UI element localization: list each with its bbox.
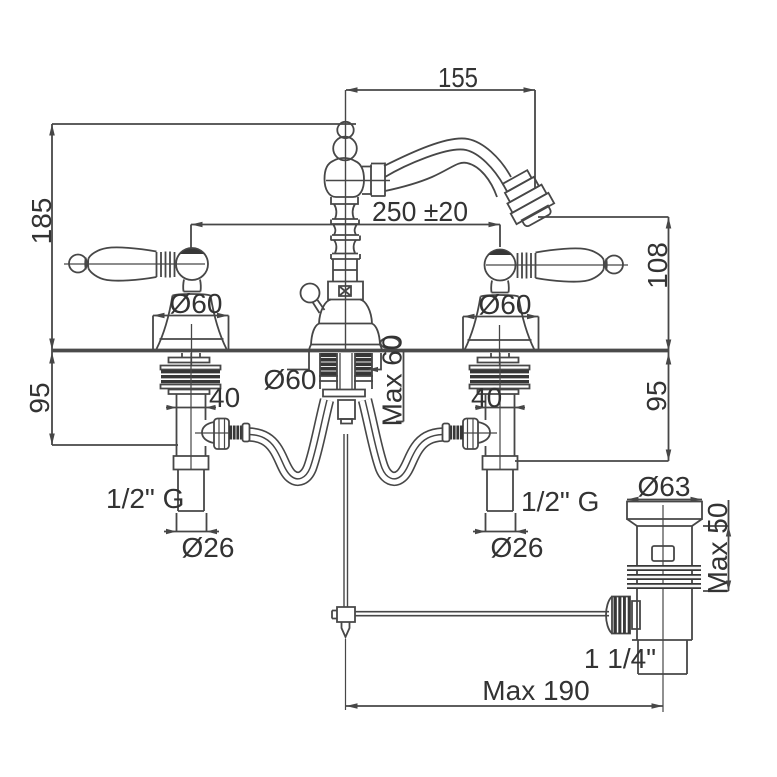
drain O63 arrows bbox=[627, 497, 702, 503]
right valve O26 extensions bbox=[486, 513, 516, 532]
max60 bracket bbox=[368, 352, 404, 422]
max50 bottom tick bbox=[703, 590, 729, 592]
column neck bbox=[334, 240, 356, 253]
left valve fitting flange bbox=[243, 424, 250, 442]
max190 line bbox=[346, 705, 663, 707]
right valve O26 dim line bbox=[473, 531, 528, 533]
drain rib band 3 bbox=[627, 583, 701, 589]
right hose middle line bbox=[365, 400, 443, 479]
dim 95 right vertical bbox=[668, 352, 670, 461]
column taper band bbox=[333, 224, 357, 235]
left handle bonnet ball bbox=[176, 248, 208, 280]
right valve plate 2 bbox=[478, 390, 519, 395]
right valve 40 dim bbox=[475, 407, 525, 409]
column vase section bbox=[334, 204, 355, 219]
right valve ribbed locknut bbox=[470, 366, 530, 389]
right hose white core bbox=[365, 400, 443, 479]
svg-text:250 ±20: 250 ±20 bbox=[372, 196, 468, 227]
right valve fitting hex bbox=[463, 419, 478, 450]
right hose dark band bbox=[365, 400, 443, 479]
left valve plate 1 bbox=[169, 358, 210, 363]
pop-up block bbox=[328, 282, 363, 300]
svg-text:Ø60: Ø60 bbox=[264, 364, 317, 395]
right valve fitting nipple (dark) bbox=[450, 426, 464, 440]
spout tube middle line bbox=[385, 149, 504, 186]
DIMS bbox=[49, 87, 671, 461]
side oval at bell base bbox=[381, 338, 400, 349]
dim 60 right arrows bbox=[463, 314, 539, 320]
faucet centerline bbox=[345, 90, 347, 350]
center bell base lines bbox=[311, 324, 380, 345]
pop-up rod upper bbox=[344, 434, 348, 607]
max60 vertical line bbox=[403, 352, 405, 422]
drain O63 dim line bbox=[627, 499, 702, 501]
max50 bracket bbox=[703, 500, 731, 591]
center left stud lines bbox=[319, 353, 338, 389]
drain flange shoulder bbox=[627, 519, 702, 526]
column straight tube bbox=[333, 259, 357, 281]
center left stud thread (dark) bbox=[320, 353, 337, 376]
right valve 40 arrows bbox=[476, 405, 525, 410]
left valve O26 dim line bbox=[164, 531, 219, 533]
right handle stem below bbox=[491, 281, 509, 293]
left handle bonnet cap (dark) bbox=[180, 249, 204, 254]
max60 leader bbox=[370, 353, 381, 370]
right valve lower block bbox=[483, 456, 518, 470]
dim 60 left arrows bbox=[153, 313, 229, 319]
max50 top tick bbox=[703, 525, 729, 527]
spout collar ring 2 bbox=[371, 163, 385, 197]
linkage clamp side stub bbox=[332, 611, 337, 619]
right valve lower tube bbox=[487, 470, 513, 512]
left valve 40 arrows bbox=[167, 405, 216, 410]
svg-text:1/2" G: 1/2" G bbox=[106, 483, 184, 514]
aerator bbox=[496, 167, 558, 231]
right valve axis bbox=[499, 353, 501, 470]
right valve fitting hex facets bbox=[468, 419, 474, 449]
left valve ribbed locknut bbox=[161, 366, 221, 389]
left handle neck bbox=[85, 258, 88, 270]
left valve fitting hex facets bbox=[219, 419, 225, 449]
dim 95 left vertical bbox=[51, 351, 53, 445]
right valve fitting nipple threads bbox=[453, 426, 460, 440]
left hose dark band bbox=[250, 400, 328, 479]
left valve fitting nipple (dark) bbox=[229, 426, 243, 440]
drain knob left cap bbox=[606, 597, 612, 634]
spout body bbox=[325, 158, 365, 197]
column ring below body bbox=[331, 197, 358, 204]
right valve fitting flange bbox=[443, 424, 450, 442]
right valve shank stub bbox=[491, 353, 509, 357]
left handle centerline bbox=[64, 263, 205, 265]
center tube lines bbox=[340, 353, 352, 389]
O60 center leader bbox=[287, 352, 309, 370]
left handle stem below bbox=[183, 280, 201, 292]
dim 108 top reference line bbox=[538, 216, 669, 218]
left valve lower tube bbox=[178, 470, 204, 512]
dim 185 top extension bbox=[52, 123, 356, 125]
svg-text:Ø26: Ø26 bbox=[182, 532, 235, 563]
spout tube bottom line bbox=[385, 163, 497, 197]
spout collar ring 1 bbox=[362, 165, 372, 196]
center right stud lines bbox=[354, 353, 373, 389]
linkage clamp square bbox=[337, 607, 355, 622]
max50 arrows bbox=[726, 526, 731, 591]
dim 185/95 arrows bbox=[49, 124, 55, 445]
right handle collar rings bbox=[518, 253, 536, 279]
dim 60 left line bbox=[153, 315, 229, 317]
right handle neck bbox=[604, 259, 607, 271]
max190 arrows bbox=[346, 703, 663, 709]
right valve fitting centerline bbox=[462, 432, 497, 434]
rod lower tip bbox=[342, 622, 350, 637]
horizontal rod to drain bbox=[355, 612, 609, 616]
left valve O26 extensions bbox=[177, 513, 207, 532]
right valve O26 arrows bbox=[475, 529, 526, 534]
left escutcheon bell bbox=[157, 292, 227, 350]
max190 dimension bbox=[346, 703, 663, 709]
right escutcheon axis bbox=[499, 325, 501, 366]
right valve locknut ribs (dark) bbox=[470, 370, 529, 383]
pull-rod knob bbox=[301, 284, 320, 303]
left valve locknut ribs (dark) bbox=[161, 370, 220, 383]
left valve side fitting boss bbox=[202, 422, 214, 443]
left valve lower block bbox=[174, 456, 209, 470]
right handle grip bbox=[536, 248, 604, 281]
dim 108/95 arrows bbox=[666, 217, 672, 461]
right handle bonnet cap (dark) bbox=[489, 250, 512, 255]
right handle centerline bbox=[486, 264, 628, 266]
svg-text:40: 40 bbox=[471, 382, 502, 413]
drain knob dark ribs bbox=[614, 597, 631, 634]
max60 bottom tick bbox=[396, 421, 404, 423]
left valve body tube bbox=[177, 394, 206, 456]
svg-text:108: 108 bbox=[642, 242, 673, 289]
svg-text:Max 50: Max 50 bbox=[702, 503, 733, 595]
svg-text:95: 95 bbox=[641, 380, 672, 411]
deck line bbox=[52, 349, 669, 353]
finial ball lower bbox=[333, 137, 357, 161]
drain knob collar bbox=[632, 601, 640, 629]
pop-up linkage bbox=[332, 607, 609, 710]
svg-text:1 1/4": 1 1/4" bbox=[584, 643, 656, 674]
dim 108 vertical bbox=[668, 217, 670, 352]
column ring pair 3 bbox=[331, 254, 360, 260]
right valve body tube bbox=[486, 394, 515, 456]
max50 vertical bbox=[728, 500, 730, 591]
center block bbox=[338, 400, 355, 419]
left valve O26 arrows bbox=[166, 529, 217, 534]
svg-text:1/2" G: 1/2" G bbox=[521, 486, 599, 517]
left valve below deck bbox=[161, 353, 250, 534]
dim 185 vertical line bbox=[51, 124, 53, 351]
right handle group bbox=[465, 248, 629, 366]
right valve below deck bbox=[443, 353, 530, 534]
dim 155 line bbox=[346, 89, 535, 91]
drain tailpiece bbox=[638, 640, 687, 674]
column ring pair 2 bbox=[331, 235, 360, 241]
left valve fitting nipple threads bbox=[233, 426, 240, 440]
left handle grip bbox=[89, 247, 157, 280]
left handle collar rings bbox=[157, 252, 175, 278]
spout tube top line bbox=[384, 138, 511, 177]
center below-deck assembly bbox=[250, 353, 443, 607]
column ring pair bbox=[331, 219, 359, 225]
dim 250 arrows bbox=[191, 222, 500, 228]
svg-text:95: 95 bbox=[24, 382, 55, 413]
left hose white core bbox=[250, 400, 328, 479]
svg-text:40: 40 bbox=[209, 382, 240, 413]
left valve fitting hex bbox=[214, 419, 229, 450]
svg-text:155: 155 bbox=[438, 62, 478, 93]
pull-rod stem bbox=[313, 300, 325, 313]
pop-up block inner square with X bbox=[339, 286, 351, 296]
drain tube bbox=[637, 526, 692, 640]
left escutcheon axis bbox=[191, 324, 193, 365]
drain assembly bbox=[606, 497, 702, 712]
right escutcheon bell bbox=[465, 293, 535, 351]
drain knob castellated bbox=[612, 597, 630, 634]
left valve axis bbox=[190, 353, 192, 470]
max190 left extension bbox=[345, 639, 347, 710]
center block stub bbox=[341, 419, 352, 424]
right handle finial ball bbox=[605, 256, 623, 274]
dim 60 right line bbox=[463, 316, 539, 318]
center right stud thread (dark) bbox=[355, 353, 372, 376]
svg-text:Ø63: Ø63 bbox=[638, 471, 691, 502]
left handle group bbox=[64, 247, 227, 365]
mounting plate bbox=[323, 390, 365, 397]
dim 155 arrows bbox=[346, 87, 535, 93]
max60 leader arrow bbox=[368, 367, 378, 372]
dim 60 right extensions bbox=[463, 317, 539, 351]
left handle finial ball bbox=[69, 255, 87, 273]
right valve side fitting boss bbox=[478, 422, 490, 443]
svg-text:Max 190: Max 190 bbox=[482, 675, 589, 706]
dim 250 line bbox=[191, 224, 500, 226]
drain rib band 1 bbox=[627, 565, 701, 571]
dim 155 right extension bbox=[534, 90, 536, 188]
spout body centerline bbox=[326, 180, 390, 182]
dim 60 left extensions bbox=[153, 316, 229, 351]
drain body bottom line bbox=[632, 639, 692, 641]
right handle bonnet ball bbox=[485, 250, 516, 281]
right valve plate 1 bbox=[478, 358, 519, 363]
dim 95 left bottom tick bbox=[52, 444, 178, 446]
dim 250 right drop bbox=[499, 225, 501, 248]
svg-text:Ø60: Ø60 bbox=[170, 288, 223, 319]
svg-text:185: 185 bbox=[26, 198, 57, 245]
left hose middle line bbox=[250, 400, 328, 479]
left valve plate 2 bbox=[169, 390, 210, 395]
center escutcheon bell bbox=[309, 300, 382, 351]
drain rib band 2 bbox=[627, 574, 701, 580]
finial ball top bbox=[337, 122, 353, 138]
dim 95 right bottom tick bbox=[515, 460, 669, 462]
left valve fitting centerline bbox=[195, 432, 230, 434]
drain centerline bbox=[662, 505, 664, 712]
drain flange bbox=[627, 502, 702, 520]
svg-text:Ø60: Ø60 bbox=[479, 289, 532, 320]
svg-text:Max 60: Max 60 bbox=[377, 335, 408, 427]
left valve shank stub bbox=[182, 353, 200, 357]
dim 250 left drop bbox=[190, 225, 192, 249]
drain overflow square bbox=[652, 546, 674, 561]
left valve 40 dim bbox=[166, 407, 216, 409]
svg-text:Ø26: Ø26 bbox=[491, 532, 544, 563]
